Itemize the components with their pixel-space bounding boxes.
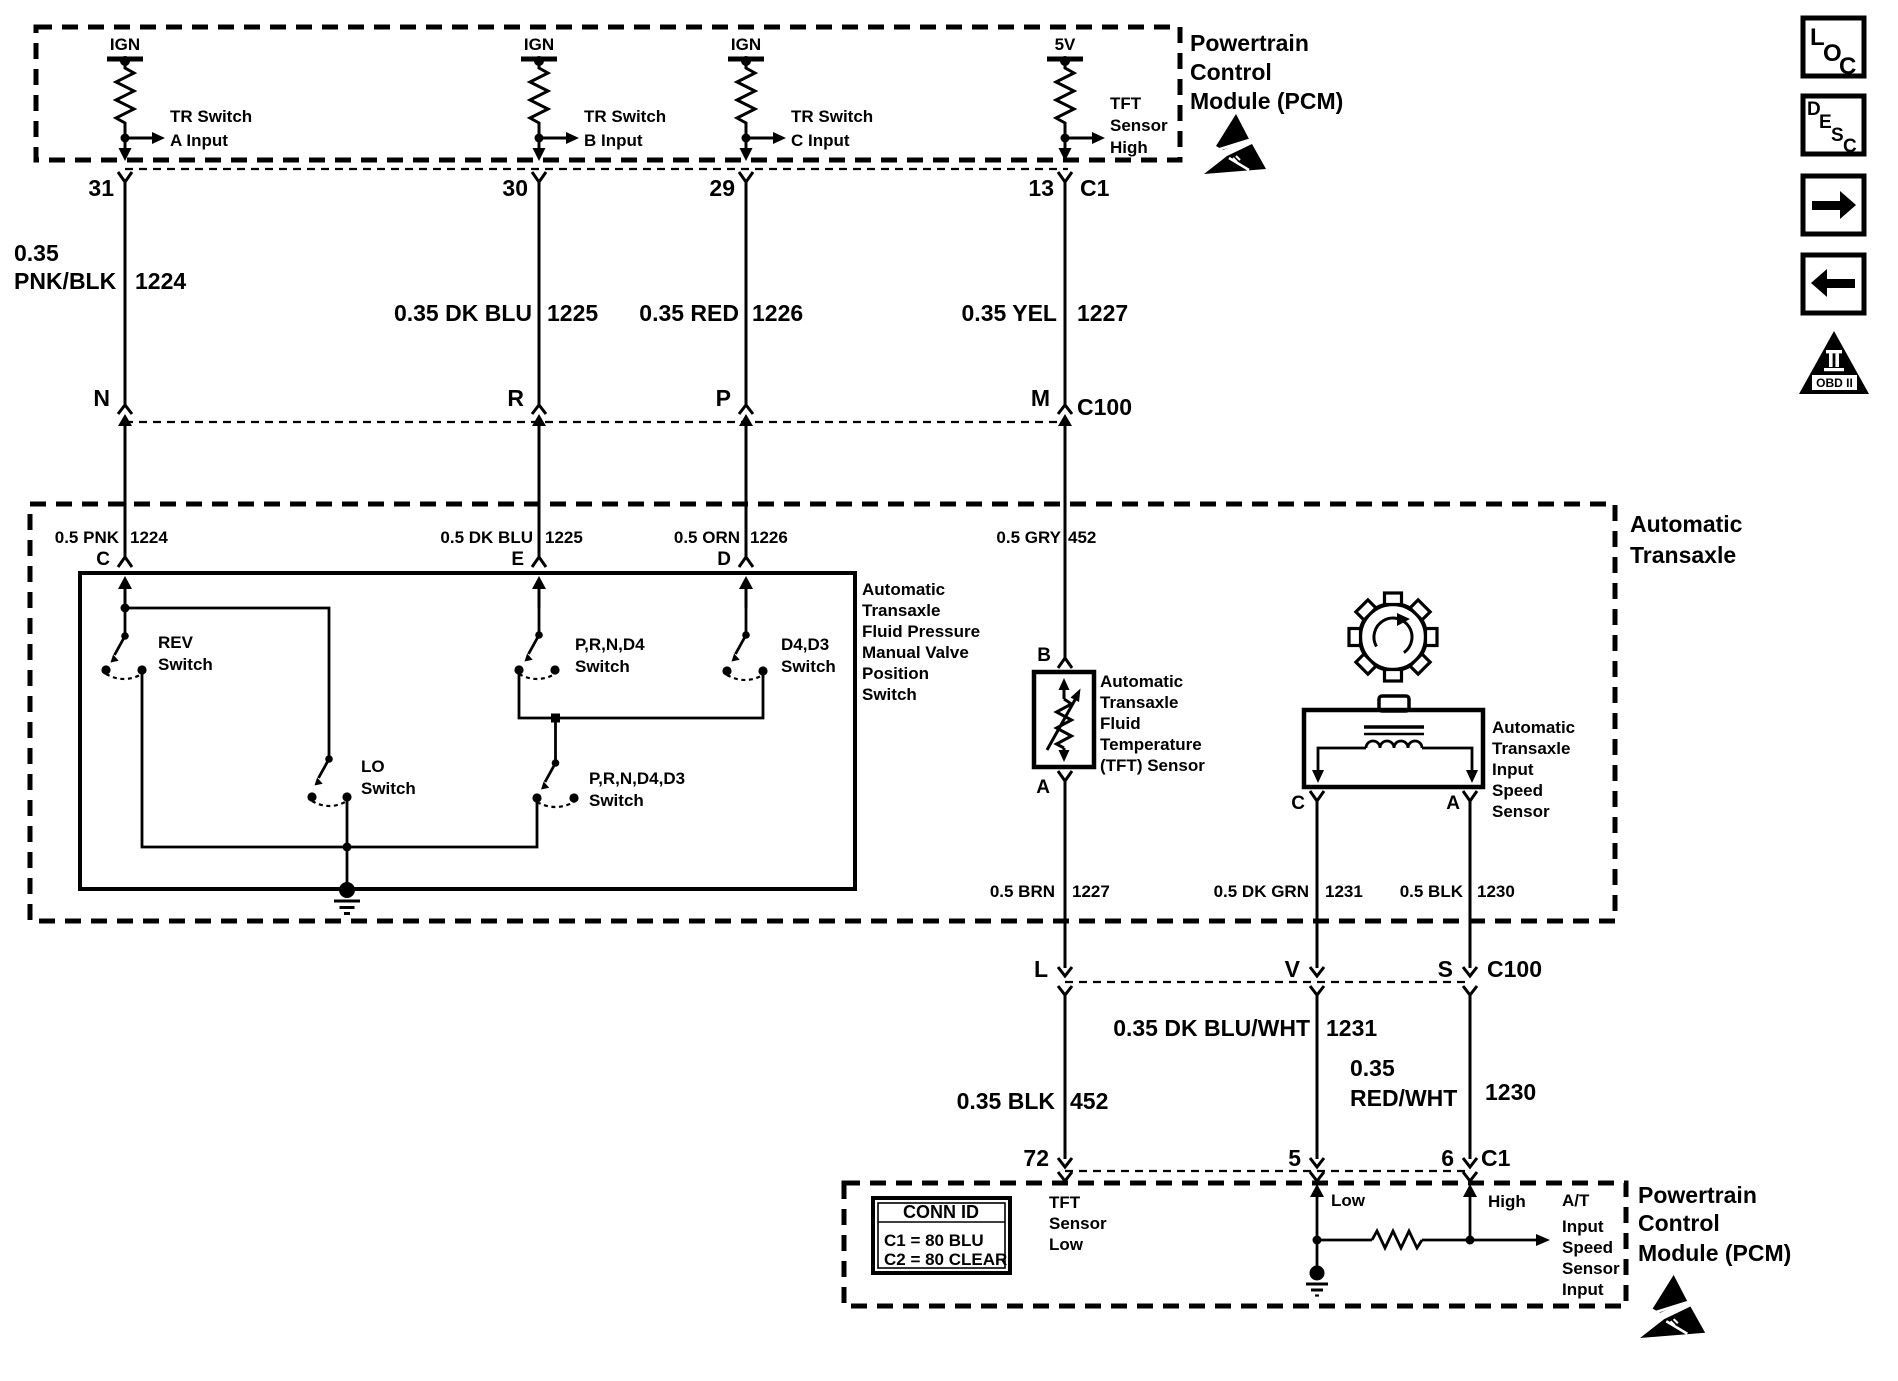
svg-text:Switch: Switch xyxy=(158,655,213,674)
svg-text:Automatic: Automatic xyxy=(1492,718,1575,737)
speed sensor label xyxy=(1492,718,1575,821)
bottom connector C1 dashed line xyxy=(1065,1170,1470,1172)
svg-text:Automatic: Automatic xyxy=(1100,672,1183,691)
signal arrow to TR Switch C Input xyxy=(746,107,873,150)
svg-text:C100: C100 xyxy=(1487,956,1542,982)
svg-text:452: 452 xyxy=(1068,528,1096,547)
connector chevron below pin 6 xyxy=(1463,1172,1477,1181)
svg-text:1225: 1225 xyxy=(545,528,583,547)
svg-text:Control: Control xyxy=(1190,59,1272,85)
speed sensor core plates xyxy=(1364,727,1424,734)
svg-text:D4,D3: D4,D3 xyxy=(781,635,829,654)
down arrow to pin 30 xyxy=(533,138,546,161)
wire label 0.35 PNK/BLK 1224 xyxy=(14,240,186,294)
wire label 0.5 ORN 1226 xyxy=(674,528,788,547)
svg-text:L: L xyxy=(1034,956,1048,982)
svg-text:Fluid Pressure: Fluid Pressure xyxy=(862,622,980,641)
PCM top dashed box xyxy=(36,27,1180,160)
svg-text:E: E xyxy=(1819,112,1832,133)
svg-text:Automatic: Automatic xyxy=(1630,511,1743,537)
svg-text:5V: 5V xyxy=(1055,35,1076,54)
connector fork at TFT pin A xyxy=(1058,771,1072,781)
resistor pull-up (TFT High) xyxy=(1056,61,1074,138)
resistor pull-up (TR Switch C Input) xyxy=(737,61,755,138)
connector C100 chevron below pin S xyxy=(1463,986,1477,995)
svg-text:452: 452 xyxy=(1070,1088,1108,1114)
svg-text:0.35: 0.35 xyxy=(14,240,59,266)
connector C100 chevron below pin V xyxy=(1310,986,1324,995)
svg-text:TR Switch: TR Switch xyxy=(170,107,252,126)
svg-text:IGN: IGN xyxy=(110,35,140,54)
connector C100 fork at M xyxy=(1058,405,1072,414)
svg-text:Transaxle: Transaxle xyxy=(1630,542,1736,568)
LOC icon box xyxy=(1803,18,1864,80)
svg-text:Switch: Switch xyxy=(589,791,644,810)
connector C1 female fork pin 31 xyxy=(118,172,132,182)
wire label 0.5 BLK 1230 xyxy=(1400,882,1515,901)
svg-text:(TFT) Sensor: (TFT) Sensor xyxy=(1100,756,1205,775)
connector C1 female fork pin 29 xyxy=(739,172,753,182)
connector C100 chevron above pin V xyxy=(1310,967,1324,976)
wire crossbar down to P,R,N,D4,D3 pivot xyxy=(554,718,557,763)
connector chevron below pin 5 xyxy=(1310,1172,1324,1181)
wire label 0.35 RED 1226 xyxy=(639,300,803,326)
connector C100 male arrow below N xyxy=(118,414,132,426)
svg-text:Input: Input xyxy=(1562,1280,1604,1299)
svg-text:0.5 GRY: 0.5 GRY xyxy=(996,528,1061,547)
connector C100 chevron below pin L xyxy=(1058,986,1072,995)
ESD triangle symbol (top PCM) xyxy=(1204,114,1266,174)
svg-text:TFT: TFT xyxy=(1049,1193,1081,1212)
svg-text:C2 = 80 CLEAR: C2 = 80 CLEAR xyxy=(884,1250,1007,1269)
entry arrow into switch box at D xyxy=(739,576,753,608)
svg-text:M: M xyxy=(1031,385,1050,411)
internal resistor (speed sensor input) xyxy=(1317,1231,1537,1248)
connector fork at speed sensor pin C xyxy=(1310,791,1324,801)
svg-text:D: D xyxy=(717,549,731,570)
pin 5 entry arrow (Low) xyxy=(1310,1184,1366,1240)
ESD triangle symbol (bottom PCM) xyxy=(1640,1275,1705,1338)
svg-text:A: A xyxy=(1036,777,1050,798)
wire label 0.5 GRY 452 xyxy=(996,528,1096,547)
connector C100 male arrow below M xyxy=(1058,414,1072,426)
connector chevron below pin 72 xyxy=(1058,1172,1072,1181)
svg-text:TR Switch: TR Switch xyxy=(584,107,666,126)
svg-text:1224: 1224 xyxy=(130,528,168,547)
svg-text:1225: 1225 xyxy=(547,300,598,326)
svg-text:0.35 BLK: 0.35 BLK xyxy=(957,1088,1056,1114)
svg-text:Speed: Speed xyxy=(1562,1238,1613,1257)
wire segment x=1065 (C100 to TFT sensor B) xyxy=(1064,420,1067,658)
svg-text:1231: 1231 xyxy=(1326,1015,1377,1041)
svg-text:Input: Input xyxy=(1562,1217,1604,1236)
svg-text:Position: Position xyxy=(862,664,929,683)
svg-text:IGN: IGN xyxy=(731,35,761,54)
DESC icon box xyxy=(1803,96,1864,157)
wire E down to P,R,N,D4 pivot xyxy=(538,600,541,635)
ground (switch box) xyxy=(334,882,360,914)
REV switch xyxy=(101,632,212,679)
wire label 0.5 DK BLU 1225 xyxy=(440,528,582,547)
P,R,N,D4 switch xyxy=(514,631,645,679)
svg-text:PNK/BLK: PNK/BLK xyxy=(14,268,117,294)
svg-text:TR Switch: TR Switch xyxy=(791,107,873,126)
svg-text:High: High xyxy=(1488,1192,1526,1211)
svg-text:Powertrain: Powertrain xyxy=(1638,1182,1757,1208)
A/T input speed sensor box xyxy=(1304,710,1483,787)
resistor pull-up (TR Switch B Input) xyxy=(530,61,548,138)
signal arrow to TR Switch A Input xyxy=(125,107,252,150)
Powertrain Control Module (PCM) label top xyxy=(1190,30,1343,114)
ground (PCM) xyxy=(1306,1240,1328,1296)
svg-text:C: C xyxy=(1843,136,1857,157)
connector C100 fork at N xyxy=(118,405,132,414)
svg-text:31: 31 xyxy=(88,175,114,201)
wire segment M (C1 to C100) xyxy=(1064,182,1067,406)
svg-text:P,R,N,D4: P,R,N,D4 xyxy=(575,635,645,654)
svg-text:0.5 BRN: 0.5 BRN xyxy=(990,882,1055,901)
connector C100 male arrow below R xyxy=(532,414,546,426)
svg-text:Control: Control xyxy=(1638,1210,1720,1236)
connector C100 fork at P xyxy=(739,405,753,414)
svg-text:Switch: Switch xyxy=(361,779,416,798)
svg-text:72: 72 xyxy=(1023,1145,1049,1171)
signal arrow to TFT High xyxy=(1065,94,1168,157)
svg-text:0.5 ORN: 0.5 ORN xyxy=(674,528,740,547)
svg-text:N: N xyxy=(93,385,110,411)
svg-text:Transaxle: Transaxle xyxy=(862,601,940,620)
svg-text:A Input: A Input xyxy=(170,131,228,150)
svg-text:LO: LO xyxy=(361,757,385,776)
svg-text:Sensor: Sensor xyxy=(1492,802,1550,821)
junction dot pin5 wire xyxy=(1313,1236,1322,1245)
svg-text:C1: C1 xyxy=(1080,175,1110,201)
svg-text:Low: Low xyxy=(1331,1191,1366,1210)
svg-text:0.5 PNK: 0.5 PNK xyxy=(55,528,120,547)
svg-text:Switch: Switch xyxy=(862,685,917,704)
svg-text:Switch: Switch xyxy=(575,657,630,676)
svg-text:C: C xyxy=(96,549,110,570)
speed sensor coil xyxy=(1366,741,1422,748)
A/T Input Speed Sensor Input label xyxy=(1562,1191,1620,1299)
svg-text:E: E xyxy=(511,549,524,570)
pin 6 entry arrow (High) xyxy=(1463,1184,1526,1240)
wire segment x=539 (C100 to transaxle) xyxy=(538,420,541,557)
wire TFT A down to C100 xyxy=(1064,781,1067,968)
power feed 5V (wire x=1065) xyxy=(1047,35,1083,66)
svg-text:1231: 1231 xyxy=(1325,882,1363,901)
svg-text:Automatic: Automatic xyxy=(862,580,945,599)
svg-text:1224: 1224 xyxy=(135,268,186,294)
TFT Sensor Low label xyxy=(1049,1193,1107,1254)
svg-text:Transaxle: Transaxle xyxy=(1100,693,1178,712)
wire from REV switch to ground bus xyxy=(142,670,537,847)
down arrow to pin 31 xyxy=(119,138,132,161)
svg-text:High: High xyxy=(1110,138,1148,157)
Automatic Transaxle label xyxy=(1630,511,1743,568)
junction dot node C branch xyxy=(121,604,130,613)
svg-text:B: B xyxy=(1037,645,1051,666)
svg-text:Sensor: Sensor xyxy=(1110,116,1168,135)
connector C100 dashed line xyxy=(125,421,1065,423)
TFT thermistor symbol xyxy=(1047,678,1081,762)
svg-text:0.35: 0.35 xyxy=(1350,1055,1395,1081)
junction dot crossbar xyxy=(551,714,560,723)
svg-text:0.35 YEL: 0.35 YEL xyxy=(962,300,1057,326)
P,R,N,D4,D3 switch xyxy=(532,759,685,810)
svg-text:RED/WHT: RED/WHT xyxy=(1350,1085,1457,1111)
manual valve position switch box xyxy=(80,573,855,889)
svg-text:CONN ID: CONN ID xyxy=(903,1202,979,1222)
wire D down to D4,D3 pivot xyxy=(745,600,748,635)
power feed IGN (wire x=746) xyxy=(728,35,764,66)
wire segment x=746 (C100 to transaxle) xyxy=(745,420,748,557)
svg-text:13: 13 xyxy=(1028,175,1054,201)
svg-text:A: A xyxy=(1446,793,1460,814)
svg-text:V: V xyxy=(1285,956,1301,982)
svg-text:Sensor: Sensor xyxy=(1049,1214,1107,1233)
CONN ID table xyxy=(873,1198,1010,1273)
connector C100 chevron above pin L xyxy=(1058,967,1072,976)
svg-text:30: 30 xyxy=(502,175,528,201)
svg-text:R: R xyxy=(507,385,524,411)
svg-text:C: C xyxy=(1291,793,1305,814)
resistor pull-up (TR Switch A Input) xyxy=(116,61,134,138)
wire branch to LO switch xyxy=(125,608,329,757)
svg-text:1230: 1230 xyxy=(1477,882,1515,901)
wire label 0.35 DK BLU/WHT 1231 xyxy=(1113,1015,1377,1041)
svg-text:Transaxle: Transaxle xyxy=(1492,739,1570,758)
svg-text:A/T: A/T xyxy=(1562,1191,1590,1210)
connector fork at pin E xyxy=(532,557,546,567)
svg-text:OBD II: OBD II xyxy=(1816,376,1853,390)
forward arrow icon box xyxy=(1803,176,1864,234)
down arrow to pin 29 xyxy=(740,138,753,161)
speed sensor connector bump xyxy=(1379,696,1409,711)
TFT sensor box xyxy=(1034,672,1094,767)
connector chevron above pin 6 xyxy=(1463,1158,1477,1167)
svg-text:Input: Input xyxy=(1492,760,1534,779)
junction dot LO/bus xyxy=(343,843,352,852)
junction dot (TR Switch A Input) xyxy=(121,134,130,143)
svg-text:Switch: Switch xyxy=(781,657,836,676)
svg-text:S: S xyxy=(1831,125,1844,146)
Powertrain Control Module (PCM) label bottom xyxy=(1638,1182,1791,1266)
PCM bottom dashed box xyxy=(844,1183,1626,1306)
svg-text:S: S xyxy=(1438,956,1453,982)
connector C100 chevron above pin S xyxy=(1463,967,1477,976)
svg-text:B Input: B Input xyxy=(584,131,643,150)
connector chevron above pin 5 xyxy=(1310,1158,1324,1167)
svg-text:Module (PCM): Module (PCM) xyxy=(1638,1240,1791,1266)
connector fork at pin C xyxy=(118,557,132,567)
wire speed sensor C down xyxy=(1316,801,1319,968)
svg-text:0.5 DK BLU: 0.5 DK BLU xyxy=(440,528,533,547)
D4,D3 switch xyxy=(722,631,835,680)
svg-text:Sensor: Sensor xyxy=(1562,1259,1620,1278)
svg-text:Low: Low xyxy=(1049,1235,1084,1254)
svg-text:C100: C100 xyxy=(1077,394,1132,420)
svg-text:0.35 DK BLU/WHT: 0.35 DK BLU/WHT xyxy=(1113,1015,1310,1041)
wire segment R (C1 to C100) xyxy=(538,182,541,406)
junction dot pin6 wire xyxy=(1466,1236,1475,1245)
LO switch xyxy=(307,755,415,806)
svg-text:0.5 BLK: 0.5 BLK xyxy=(1400,882,1464,901)
entry arrow into switch box at E xyxy=(532,576,546,608)
connector C1 female fork pin 30 xyxy=(532,172,546,182)
wire label 0.35 DK BLU 1225 xyxy=(394,300,598,326)
wire label 0.5 DK GRN 1231 xyxy=(1214,882,1363,901)
svg-text:REV: REV xyxy=(158,633,194,652)
wire speed sensor A down xyxy=(1469,801,1472,968)
wire segment x=125 (C100 to transaxle) xyxy=(124,420,127,557)
wire segment P (C1 to C100) xyxy=(745,182,748,406)
wire segment N (C1 to C100) xyxy=(124,182,127,406)
connector chevron above pin 72 xyxy=(1058,1158,1072,1167)
svg-text:TFT: TFT xyxy=(1110,94,1142,113)
power feed IGN (wire x=125) xyxy=(107,35,143,66)
svg-text:0.35 DK BLU: 0.35 DK BLU xyxy=(394,300,532,326)
connector fork at pin D xyxy=(739,557,753,567)
wire below C100 pin L xyxy=(1064,995,1067,1159)
wire below C100 pin S xyxy=(1469,995,1472,1159)
wire P,R,N,D4 left contact to crossbar xyxy=(519,670,763,718)
power feed IGN (wire x=539) xyxy=(521,35,557,66)
svg-text:1226: 1226 xyxy=(752,300,803,326)
svg-text:Temperature: Temperature xyxy=(1100,735,1202,754)
svg-text:C Input: C Input xyxy=(791,131,850,150)
connector fork at speed sensor pin A xyxy=(1463,791,1477,801)
wire C down to REV pivot xyxy=(124,608,127,636)
svg-text:0.5 DK GRN: 0.5 DK GRN xyxy=(1214,882,1309,901)
wire label 0.5 BRN 1227 xyxy=(990,882,1110,901)
svg-text:1227: 1227 xyxy=(1077,300,1128,326)
svg-text:6: 6 xyxy=(1441,1145,1454,1171)
down arrow to pin 13 xyxy=(1059,138,1072,161)
wire label 0.35 RED/WHT 1230 xyxy=(1350,1055,1536,1111)
svg-text:1226: 1226 xyxy=(750,528,788,547)
svg-text:Speed: Speed xyxy=(1492,781,1543,800)
wire from LO switch to ground xyxy=(346,797,349,889)
svg-text:P: P xyxy=(716,385,731,411)
svg-text:Manual Valve: Manual Valve xyxy=(862,643,969,662)
svg-text:Fluid: Fluid xyxy=(1100,714,1141,733)
svg-text:Powertrain: Powertrain xyxy=(1190,30,1309,56)
back arrow icon box xyxy=(1803,255,1864,313)
svg-text:C: C xyxy=(1839,53,1856,80)
A/T input speed sensor input arrow xyxy=(1536,1234,1550,1246)
connector C1 female fork pin 13 xyxy=(1058,172,1072,182)
wire label 0.35 BLK 452 xyxy=(957,1088,1109,1114)
wire label 0.5 PNK 1224 xyxy=(55,528,169,547)
lower connector C100 dashed line xyxy=(1065,981,1470,983)
svg-text:C1: C1 xyxy=(1481,1145,1511,1171)
svg-text:C1 = 80 BLU: C1 = 80 BLU xyxy=(884,1231,984,1250)
svg-text:5: 5 xyxy=(1288,1145,1301,1171)
svg-text:IGN: IGN xyxy=(524,35,554,54)
Automatic Transaxle dashed box xyxy=(30,504,1615,921)
TFT sensor label xyxy=(1100,672,1205,775)
svg-text:29: 29 xyxy=(709,175,735,201)
junction dot (TFT High) xyxy=(1061,134,1070,143)
svg-text:1227: 1227 xyxy=(1072,882,1110,901)
connector fork at TFT pin B xyxy=(1058,658,1072,668)
switch box label xyxy=(862,580,980,704)
connector C100 fork at R xyxy=(532,405,546,414)
gear icon (reluctor wheel) xyxy=(1349,593,1437,681)
OBD II icon triangle xyxy=(1799,331,1869,394)
junction dot (TR Switch C Input) xyxy=(742,134,751,143)
connector C100 male arrow below P xyxy=(739,414,753,426)
wire label 0.35 YEL 1227 xyxy=(962,300,1129,326)
signal arrow to TR Switch B Input xyxy=(539,107,666,150)
svg-text:0.35 RED: 0.35 RED xyxy=(639,300,739,326)
entry arrow into switch box at C xyxy=(118,576,132,608)
svg-text:P,R,N,D4,D3: P,R,N,D4,D3 xyxy=(589,769,685,788)
junction dot (TR Switch B Input) xyxy=(535,134,544,143)
svg-text:Module (PCM): Module (PCM) xyxy=(1190,88,1343,114)
svg-text:1230: 1230 xyxy=(1485,1079,1536,1105)
connector C1 dashed line xyxy=(125,168,1068,170)
speed sensor internal wires with arrows xyxy=(1312,748,1478,783)
wire below C100 pin V xyxy=(1316,995,1319,1159)
